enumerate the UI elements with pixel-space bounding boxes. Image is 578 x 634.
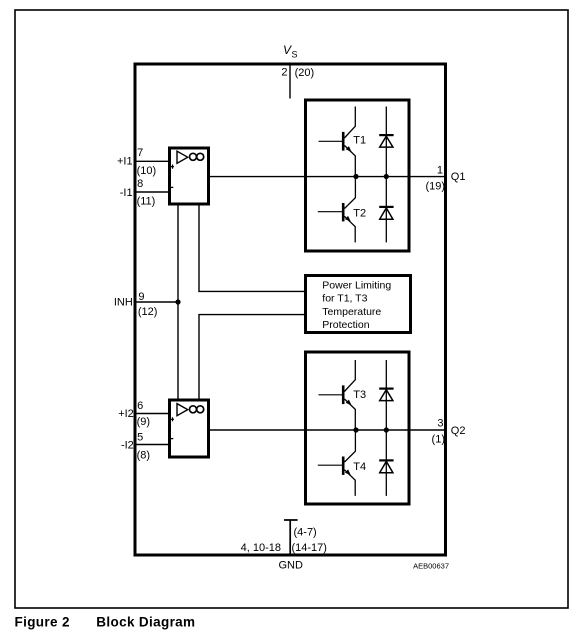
pin number (11) [137, 195, 156, 207]
pin number 5 [137, 431, 143, 443]
wire A2 output to Q2 [209, 429, 445, 431]
transistor T2 [318, 177, 356, 243]
svg-text:6: 6 [137, 400, 143, 412]
svg-text:Block Diagram: Block Diagram [96, 615, 195, 630]
svg-text:INH: INH [114, 297, 133, 309]
pin number 8 [137, 178, 143, 190]
svg-text:3: 3 [437, 418, 443, 430]
svg-text:5: 5 [137, 431, 143, 443]
transistor T4 [318, 430, 356, 496]
op-amp A1 box [170, 148, 209, 204]
pin number 3 [437, 418, 443, 430]
pin number (4-7) [294, 527, 317, 539]
wire A1 to A2 control bus left [177, 204, 179, 400]
svg-text:(11): (11) [137, 195, 156, 207]
ground pin wire [284, 520, 298, 554]
diode D4 [379, 430, 393, 496]
svg-text:T3: T3 [353, 389, 366, 401]
junction node Q2-emitter [353, 427, 358, 432]
diode D2 [379, 177, 393, 243]
svg-text:(14-17): (14-17) [292, 542, 327, 554]
wire A1 output to Q1 [209, 176, 445, 178]
svg-text:Q2: Q2 [451, 425, 466, 437]
junction node Q1-emitter [353, 174, 358, 179]
pin number (1) [432, 433, 445, 445]
svg-text:(20): (20) [295, 67, 315, 79]
pin number (20) [295, 67, 315, 79]
svg-text:GND: GND [279, 560, 304, 572]
IC outline box [135, 64, 446, 555]
wire input +I2 [137, 413, 170, 415]
svg-text:T2: T2 [353, 207, 366, 219]
svg-text:(8): (8) [137, 450, 150, 462]
label GND [279, 560, 304, 572]
svg-text:(12): (12) [138, 306, 158, 318]
wire input +I1 [137, 160, 170, 162]
svg-text:Figure 2: Figure 2 [15, 615, 70, 630]
wire input -I1 [137, 191, 170, 193]
svg-text:8: 8 [137, 178, 143, 190]
label Q1 [451, 171, 466, 183]
transistor T3 [319, 360, 356, 430]
op-amp A2 minus input marker [170, 438, 173, 440]
label T2 [353, 207, 366, 219]
pin number 1 [437, 164, 443, 176]
svg-text:-I2: -I2 [121, 439, 134, 451]
junction node Q2-diode [384, 427, 389, 432]
diode D3 [379, 360, 393, 430]
label +I2 [118, 408, 134, 420]
op-amp A2 plus input marker [171, 417, 174, 421]
power limiting block box [306, 276, 411, 333]
wire input -I2 [137, 444, 170, 446]
label T4 [353, 461, 366, 473]
wire INH input [137, 301, 179, 303]
diode D1 [379, 107, 393, 177]
svg-text:Protection: Protection [322, 319, 369, 331]
svg-text:Q1: Q1 [451, 171, 466, 183]
svg-text:(10): (10) [137, 165, 157, 177]
pin number (10) [137, 165, 157, 177]
drawing number AEB00637 [413, 562, 449, 571]
pin number 6 [137, 400, 143, 412]
svg-text:2: 2 [281, 67, 287, 79]
pin number (8) [137, 450, 150, 462]
output stage 2 box [306, 352, 410, 504]
pin 2 (20) VS wire [289, 66, 291, 99]
svg-text:9: 9 [138, 291, 144, 303]
op-amp A2 infinity gain symbol [190, 406, 204, 413]
svg-text:7: 7 [137, 147, 143, 159]
svg-text:S: S [292, 50, 298, 60]
svg-text:T1: T1 [353, 134, 366, 146]
svg-text:(19): (19) [425, 180, 445, 192]
transistor T1 [319, 107, 356, 177]
output stage 1 box [306, 100, 410, 251]
power limiting block text [322, 280, 391, 331]
supply net VS label [283, 43, 298, 60]
wire power-limit block to A2 [199, 315, 305, 400]
svg-text:-I1: -I1 [120, 187, 133, 199]
svg-text:for T1, T3: for T1, T3 [322, 293, 367, 305]
op-amp A1 minus input marker [170, 186, 173, 188]
svg-text:(4-7): (4-7) [294, 527, 317, 539]
svg-text:AEB00637: AEB00637 [413, 562, 449, 571]
svg-text:(9): (9) [137, 416, 150, 428]
op-amp A1 plus input marker [171, 165, 174, 169]
svg-text:4, 10-18: 4, 10-18 [241, 542, 281, 554]
label -I2 [121, 439, 134, 451]
op-amp A2 box [170, 400, 209, 457]
label T1 [353, 134, 366, 146]
label Q2 [451, 425, 466, 437]
svg-text:1: 1 [437, 164, 443, 176]
pin number (12) [138, 306, 158, 318]
pin number 7 [137, 147, 143, 159]
pin number 2 [281, 67, 287, 79]
svg-text:+I2: +I2 [118, 408, 134, 420]
figure caption [15, 615, 196, 630]
op-amp A2 triangle symbol [177, 404, 188, 416]
pin number (9) [137, 416, 150, 428]
op-amp A1 triangle symbol [177, 151, 188, 163]
pin number (19) [425, 180, 445, 192]
label -I1 [120, 187, 133, 199]
junction node Q1-diode [384, 174, 389, 179]
svg-text:T4: T4 [353, 461, 366, 473]
svg-text:+I1: +I1 [117, 156, 133, 168]
junction INH node [175, 299, 180, 304]
svg-text:Temperature: Temperature [322, 306, 381, 318]
pin number (14-17) [292, 542, 327, 554]
pin number 9 [138, 291, 144, 303]
op-amp A1 infinity gain symbol [190, 153, 204, 160]
label INH [114, 297, 133, 309]
svg-text:Power Limiting: Power Limiting [322, 280, 391, 292]
pin number 4, 10-18 [241, 542, 281, 554]
label T3 [353, 389, 366, 401]
wire A1 to power-limit block [199, 204, 305, 291]
svg-text:(1): (1) [432, 433, 445, 445]
label +I1 [117, 156, 133, 168]
